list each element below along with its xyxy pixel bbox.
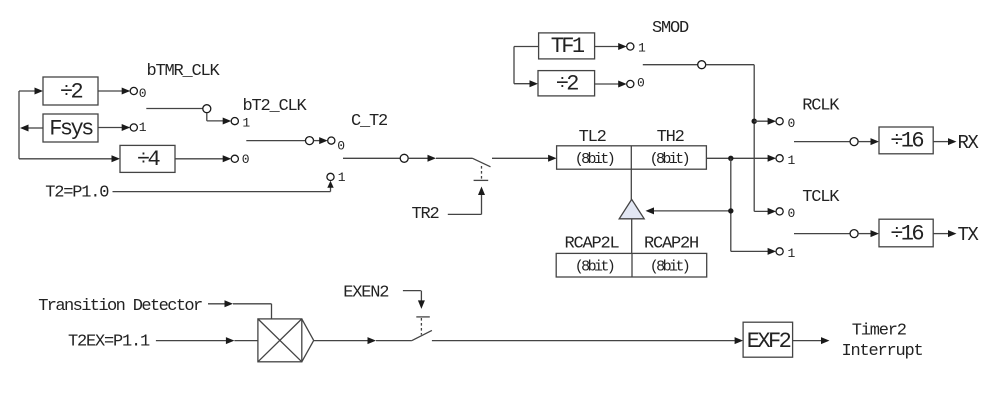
svg-text:Fsys: Fsys [49, 116, 93, 141]
svg-text:Transition Detector: Transition Detector [38, 297, 202, 316]
divider /16 block tx [879, 219, 933, 247]
svg-text:RCAP2H: RCAP2H [644, 234, 698, 253]
label Transition Detector [38, 297, 202, 316]
wire div16 to TX [933, 230, 956, 237]
svg-text:0: 0 [788, 206, 796, 221]
wire mux1 output L-bend [207, 113, 231, 125]
wire register to reload buffer [630, 169, 632, 200]
svg-text:TCLK: TCLK [802, 188, 840, 207]
divider /2 block smod [538, 71, 595, 97]
pin label T2=P1.0 [45, 184, 109, 203]
contact 1 of bTMR_CLK mux [130, 120, 147, 135]
wire TH2 rail down [730, 158, 732, 251]
junction TH2 out [728, 156, 733, 161]
TR2 switch blade [473, 158, 491, 167]
contact 0 of bTMR_CLK mux [130, 86, 146, 101]
contact 1 of SMOD mux [627, 40, 646, 55]
svg-text:TR2: TR2 [412, 205, 439, 224]
EXEN2 switch actuator dashed [420, 318, 422, 335]
EXEN2 switch tick [416, 316, 430, 318]
wire Fsys out to contact 1 [98, 124, 130, 131]
signal label TR2 [412, 205, 439, 224]
svg-text:RCLK: RCLK [802, 96, 840, 115]
SMOD mux lever [643, 64, 698, 66]
oscillator Fsys block [43, 114, 98, 142]
wire RCLK mux to div16 [858, 138, 879, 145]
net label bTMR_CLK [147, 62, 221, 81]
register label RCAP2L [565, 234, 620, 253]
C_T2 mux lever [343, 157, 400, 159]
contact 0 of SMOD mux [627, 76, 645, 91]
EXEN2 control arrow [403, 291, 425, 309]
svg-text:÷2: ÷2 [556, 72, 579, 97]
contact 0 of RCLK mux [776, 116, 795, 131]
pin label T2EX=P1.1 [68, 333, 150, 352]
transition detector XOR box [258, 319, 314, 362]
net label TCLK [802, 188, 840, 207]
svg-text:÷16: ÷16 [890, 129, 923, 154]
svg-text:TH2: TH2 [657, 128, 684, 147]
svg-text:EXEN2: EXEN2 [343, 284, 388, 303]
svg-text:bT2_CLK: bT2_CLK [243, 97, 308, 116]
svg-text:SMOD: SMOD [652, 19, 689, 38]
wire left feedback vertical [18, 91, 20, 159]
bTMR_CLK mux pivot [203, 105, 211, 113]
svg-text:(8bit): (8bit) [575, 258, 614, 275]
wire transition detector in [208, 300, 272, 319]
svg-text:1: 1 [788, 153, 796, 168]
divider /4 block [120, 145, 175, 172]
bT2_CLK mux pivot [306, 137, 314, 145]
svg-text:EXF2: EXF2 [747, 329, 791, 354]
wire to RCLK contact 0 [754, 118, 776, 125]
wire switch to TL2 [492, 155, 557, 162]
svg-text:T2EX=P1.1: T2EX=P1.1 [68, 333, 150, 352]
wire TF1 to divide-by-2 loop [514, 47, 539, 88]
wire to TCLK contact 0 [754, 208, 776, 215]
wire TF1 out to contact 1 [595, 43, 627, 50]
TR2 control arrow [448, 187, 485, 215]
wire reload control into buffer [646, 207, 731, 214]
bT2_CLK mux lever [246, 140, 305, 142]
wire TCLK mux to div16 [858, 230, 879, 237]
wire SMOD output rail [706, 65, 754, 212]
svg-text:(8bit): (8bit) [575, 151, 614, 168]
RCLK mux pivot [850, 138, 858, 146]
svg-text:0: 0 [242, 152, 250, 167]
wire switch to EXF2 [432, 337, 743, 344]
net label RCLK [802, 96, 840, 115]
wire T2 input [113, 181, 334, 192]
contact 1 of C_T2 mux [327, 170, 346, 185]
contact 1 of bT2_CLK mux [231, 115, 250, 130]
register TL2/TH2 box [557, 146, 707, 169]
net label C_T2 [351, 112, 387, 131]
reload buffer triangle [619, 199, 644, 218]
svg-text:bTMR_CLK: bTMR_CLK [147, 62, 221, 81]
svg-text:÷4: ÷4 [137, 147, 161, 172]
flag TF1 block [539, 33, 595, 59]
wire /2 out to contact 0 [595, 81, 627, 88]
TR2 switch tick [474, 179, 489, 181]
TR2 switch actuator dashed [481, 166, 483, 179]
wire TH2 overflow out [706, 155, 776, 162]
svg-text:C_T2: C_T2 [351, 112, 387, 131]
register RCAP2L/RCAP2H box [556, 253, 707, 277]
pin label RX [958, 132, 980, 154]
junction reload branch [728, 208, 733, 213]
divider /16 block rx [879, 127, 933, 154]
contact 0 of TCLK mux [776, 206, 795, 221]
contact 0 of C_T2 mux [328, 137, 345, 153]
wire into divide-by-2 [19, 88, 43, 95]
wire C_T2 output to TR2 switch [408, 155, 472, 162]
wire EXF2 to interrupt [793, 337, 830, 344]
EXEN2 switch blade [412, 330, 432, 340]
register label TH2 [657, 128, 684, 147]
svg-text:RX: RX [958, 132, 980, 154]
svg-text:Timer2: Timer2 [852, 322, 906, 341]
svg-text:TL2: TL2 [579, 128, 606, 147]
net label bT2_CLK [243, 97, 308, 116]
svg-text:1: 1 [139, 120, 147, 135]
divider /2 block [43, 77, 98, 105]
contact 1 of TCLK mux [776, 246, 796, 261]
svg-text:RCAP2L: RCAP2L [565, 234, 620, 253]
svg-text:TX: TX [958, 224, 980, 246]
register label TL2 [579, 128, 606, 147]
svg-text:0: 0 [788, 116, 796, 131]
contact 0 of bT2_CLK mux [231, 152, 249, 167]
wire detector out to EXEN2 switch [314, 337, 412, 344]
svg-text:1: 1 [242, 115, 250, 130]
svg-text:0: 0 [337, 138, 345, 153]
register label RCAP2H [644, 234, 698, 253]
wire buffer to RCAP registers [631, 219, 633, 277]
TCLK mux lever [794, 233, 850, 235]
bTMR_CLK mux lever [146, 108, 202, 110]
svg-text:1: 1 [638, 40, 646, 55]
TCLK mux pivot [850, 230, 858, 238]
junction SMOD rail to RCLK0 [752, 119, 757, 124]
svg-text:(8bit): (8bit) [650, 258, 689, 275]
svg-text:Interrupt: Interrupt [842, 342, 923, 361]
wire div16 to RX [933, 138, 956, 145]
wire T2EX input [156, 337, 258, 344]
RCLK mux lever [794, 141, 850, 143]
wire to TCLK contact 1 [731, 248, 776, 255]
net label SMOD [652, 19, 689, 38]
svg-text:0: 0 [637, 76, 645, 91]
svg-text:1: 1 [338, 170, 346, 185]
contact 1 of RCLK mux [776, 153, 796, 168]
pin label TX [958, 224, 980, 246]
wire Fsys output to left rail [20, 125, 43, 132]
signal label EXEN2 [343, 284, 388, 303]
wire /2 out to contact 0 [98, 88, 130, 95]
svg-text:÷16: ÷16 [890, 221, 923, 246]
svg-text:÷2: ÷2 [60, 79, 83, 104]
label Timer2 Interrupt [842, 322, 923, 362]
svg-text:1: 1 [788, 246, 796, 261]
svg-text:(8bit): (8bit) [650, 151, 689, 168]
SMOD mux pivot [698, 61, 706, 69]
C_T2 mux pivot [400, 154, 408, 162]
svg-text:T2=P1.0: T2=P1.0 [45, 184, 109, 203]
flag EXF2 block [743, 322, 793, 357]
svg-text:TF1: TF1 [551, 34, 585, 59]
wire mux2 output [314, 137, 328, 144]
svg-text:0: 0 [139, 86, 147, 101]
wire /4 out to contact 0 [175, 155, 231, 162]
wire into divide-by-4 [19, 155, 120, 162]
